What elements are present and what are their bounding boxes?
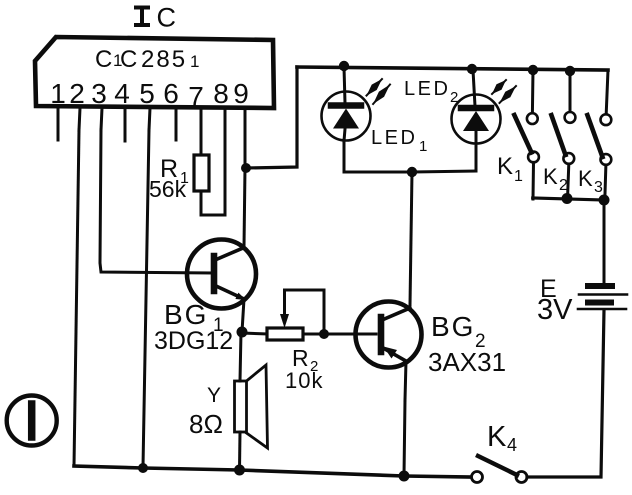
node LED2 tap: [467, 64, 477, 74]
wire R2 right to BG2 base: [303, 333, 376, 336]
switch K3: [587, 70, 611, 200]
label K4: [487, 421, 517, 455]
svg-text:9: 9: [233, 78, 249, 109]
label R2: [292, 345, 318, 375]
svg-text:C: C: [120, 46, 137, 73]
svg-text:6: 6: [163, 78, 179, 109]
svg-text:K: K: [578, 166, 593, 191]
resistor R1: [194, 155, 209, 191]
node LED1 tap: [339, 61, 349, 71]
svg-text:1: 1: [419, 138, 427, 155]
svg-text:BG: BG: [164, 299, 208, 330]
svg-text:Y: Y: [207, 384, 221, 407]
svg-text:K: K: [487, 421, 507, 453]
wire bottom rail right of K4: [527, 310, 604, 477]
label R1: [160, 155, 189, 187]
wire LED bus down to BG2 collector: [410, 172, 412, 305]
node LED bus to BG2 collector: [407, 167, 417, 177]
node junction pin9 branch: [241, 163, 251, 173]
label K2: [543, 164, 568, 194]
svg-text:10k: 10k: [285, 368, 323, 393]
wire switch common bus: [533, 198, 604, 200]
svg-text:C: C: [95, 46, 112, 73]
node pin5 bottom junction: [138, 463, 148, 473]
LED LED2: [452, 70, 501, 171]
label K3: [578, 166, 603, 196]
node K2 tap: [565, 66, 575, 76]
svg-text:3: 3: [594, 179, 603, 196]
pin 8: [224, 108, 227, 215]
node speaker bottom junction: [234, 465, 245, 476]
node BG2 emitter bottom junction: [399, 471, 410, 482]
svg-text:K: K: [543, 164, 558, 189]
wire pin2 to bottom-left corner: [74, 130, 79, 466]
label IC: [136, 3, 176, 33]
wire pin3 down and right to BG1 base: [100, 130, 212, 273]
node K3 bus junction: [599, 195, 610, 206]
wire pin5 to bottom rail: [143, 130, 149, 467]
pin 9: [244, 108, 247, 168]
svg-text:BG: BG: [431, 311, 475, 342]
wire junction to R2 left: [242, 333, 267, 334]
node R2 wiper junction: [319, 329, 329, 339]
label BG1: [164, 299, 224, 336]
switch K2: [551, 71, 575, 199]
wire LED cathodes bus: [344, 171, 476, 172]
svg-text:LED: LED: [404, 78, 450, 100]
battery E 3V: [578, 200, 627, 309]
label BG2: [431, 311, 486, 352]
svg-text:K: K: [497, 153, 513, 180]
label LED1: [371, 127, 427, 155]
node K2 bus junction: [562, 193, 573, 204]
svg-text:8: 8: [213, 78, 229, 109]
svg-text:3: 3: [91, 78, 107, 109]
pin 6 stub: [175, 108, 178, 140]
svg-text:8Ω: 8Ω: [189, 409, 223, 439]
pin 2: [79, 108, 80, 130]
wire top supply rail: [297, 67, 608, 70]
label LED2: [404, 78, 458, 106]
speaker Y: [235, 332, 268, 470]
svg-text:LED: LED: [371, 127, 417, 149]
transistor BG2: [356, 302, 422, 401]
svg-text:2: 2: [559, 177, 568, 194]
switch K1: [514, 70, 539, 199]
transistor BG1: [187, 240, 256, 333]
figure marker I: [7, 396, 57, 446]
svg-text:5: 5: [139, 78, 155, 109]
potentiometer R2: [267, 290, 324, 340]
svg-text:2: 2: [450, 89, 458, 106]
svg-text:C: C: [157, 3, 177, 33]
wire pin8 to R1 bottom: [201, 191, 225, 215]
svg-text:1: 1: [50, 78, 66, 109]
pin 7: [200, 108, 203, 155]
wire bottom rail left of K4: [74, 466, 471, 477]
svg-text:4: 4: [114, 78, 130, 109]
IC U1 body: [35, 37, 274, 108]
label CIC2851: [95, 46, 199, 73]
LED2 light rays: [492, 80, 516, 103]
LED1 light rays: [367, 79, 391, 104]
pin numbers 1-9: [50, 78, 249, 112]
svg-text:1: 1: [514, 168, 523, 185]
pin 3: [101, 108, 102, 130]
node BG1 emitter junction: [237, 327, 248, 338]
switch K4: [472, 456, 528, 483]
wire pin9 down to BG1 collector: [244, 168, 245, 247]
svg-text:1: 1: [190, 52, 199, 71]
pin 1 stub: [57, 108, 60, 140]
label K1: [497, 153, 523, 185]
wire BG2 emitter to bottom rail: [404, 400, 405, 476]
node K1 tap: [528, 65, 538, 75]
svg-text:285: 285: [141, 46, 187, 73]
pin 5: [149, 108, 150, 130]
LED LED1: [322, 67, 371, 172]
svg-text:3V: 3V: [537, 294, 573, 326]
svg-text:3AX31: 3AX31: [428, 347, 506, 377]
svg-text:4: 4: [507, 435, 517, 455]
svg-text:3DG12: 3DG12: [154, 327, 233, 355]
pin 4 stub: [124, 108, 127, 141]
wire pin9 junction to top rail: [246, 67, 297, 168]
svg-text:2: 2: [69, 78, 85, 109]
svg-text:56k: 56k: [149, 176, 187, 202]
